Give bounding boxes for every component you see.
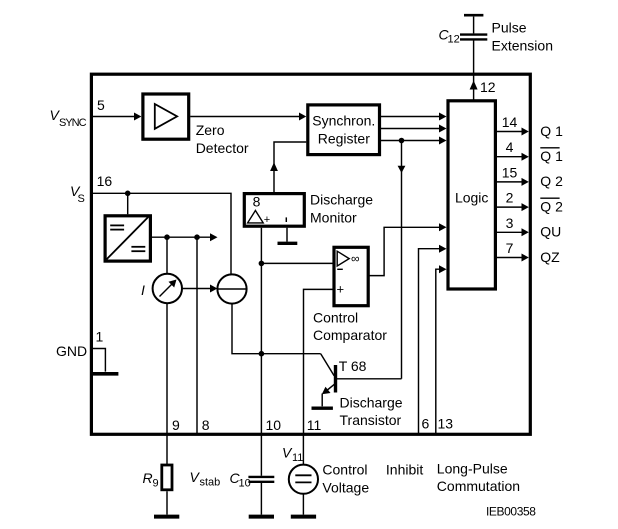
svg-text:Commutation: Commutation — [437, 478, 520, 494]
node rail to pin 8 — [194, 234, 200, 240]
node rail to pin 9 — [164, 234, 170, 240]
svg-text:11: 11 — [307, 417, 322, 433]
terminal bar above C12 — [464, 14, 483, 17]
svg-text:Q 2: Q 2 — [540, 173, 563, 189]
transistor T68 base bar — [334, 365, 337, 393]
wire logic output Q2bar pin 2 — [497, 206, 522, 208]
svg-text:Transistor: Transistor — [340, 412, 402, 428]
svg-text:7: 7 — [506, 240, 514, 256]
svg-text:QZ: QZ — [540, 249, 560, 265]
wire logic output Q2 pin 15 — [497, 181, 522, 183]
IC outline box — [91, 74, 530, 434]
current source circle — [217, 274, 246, 303]
comparator minus sign — [337, 268, 343, 270]
svg-text:Discharge: Discharge — [340, 394, 403, 410]
svg-text:Extension: Extension — [492, 37, 553, 53]
wire V11 to ground — [302, 494, 304, 515]
ground R9 — [154, 515, 179, 519]
svg-text:Logic: Logic — [455, 189, 488, 205]
svg-text:10: 10 — [266, 417, 282, 433]
svg-text:Long-Pulse: Long-Pulse — [437, 460, 508, 476]
wire zero detector to synchron register — [190, 116, 299, 118]
discharge monitor box — [244, 194, 304, 227]
svg-text:12: 12 — [480, 79, 496, 95]
svg-text:+: + — [264, 214, 270, 226]
svg-text:2: 2 — [506, 190, 514, 206]
node VS junction — [125, 191, 131, 197]
regulator equals top left — [110, 224, 124, 226]
V11 source circle — [289, 465, 318, 494]
wire logic output Q1 pin 14 — [497, 131, 522, 133]
svg-text:8: 8 — [202, 417, 210, 433]
svg-text:T 68: T 68 — [339, 358, 367, 374]
svg-text:IEB00358: IEB00358 — [486, 505, 536, 519]
svg-text:I: I — [141, 282, 145, 298]
svg-text:13: 13 — [438, 416, 454, 432]
svg-text:QU: QU — [540, 224, 561, 240]
wire pin 9 vertical lower — [166, 303, 168, 434]
regulator equals bottom right — [131, 246, 145, 248]
capacitor C10 — [248, 476, 274, 478]
wire regulator output rail — [152, 236, 211, 238]
wire pin 10 external — [260, 434, 262, 476]
wire junction down to discharge transistor collector — [401, 141, 403, 379]
regulator box — [105, 216, 150, 261]
svg-text:Control: Control — [322, 462, 367, 478]
svg-text:Inhibit: Inhibit — [386, 462, 423, 478]
regulator diagonal — [107, 217, 149, 260]
logic box — [448, 101, 495, 289]
wire logic output QZ pin 7 — [497, 257, 522, 259]
comparator triangle — [337, 251, 349, 266]
svg-text:∞: ∞ — [351, 252, 360, 266]
wire discharge monitor to register — [274, 142, 306, 192]
transistor emitter with arrow — [326, 384, 335, 391]
wire pin 9 vertical upper — [166, 237, 168, 274]
wire VS to regulator — [127, 193, 129, 214]
svg-text:9: 9 — [172, 417, 180, 433]
ground V11 — [291, 515, 316, 519]
svg-text:9: 9 — [153, 478, 159, 490]
wire emitter to ground — [321, 394, 323, 407]
zero detector U1 box — [143, 94, 189, 139]
svg-text:11: 11 — [292, 452, 303, 464]
wire pin 10 vertical — [260, 228, 262, 434]
ground GND — [93, 372, 119, 376]
node pin 10 comparator rail — [259, 261, 265, 267]
monitor tick — [285, 217, 287, 222]
wire R9 to ground — [166, 491, 168, 514]
svg-text:Comparator: Comparator — [313, 327, 387, 343]
wire pin 11 to comparator plus input — [304, 289, 333, 434]
wire pin 13 to logic — [436, 269, 440, 434]
wire VSYNC input pin 5 — [93, 116, 135, 118]
svg-text:5: 5 — [97, 97, 105, 113]
svg-text:SYNC: SYNC — [59, 117, 87, 129]
wire comparator output to logic — [368, 227, 439, 275]
wire pin 6 to logic — [419, 249, 440, 434]
wire transistor collector — [336, 378, 402, 380]
wire logic output Q1bar pin 4 — [497, 156, 522, 158]
svg-text:R: R — [143, 470, 153, 486]
wire logic output QU pin 3 — [497, 231, 522, 233]
capacitor C12 — [460, 33, 487, 35]
svg-text:16: 16 — [97, 173, 113, 189]
svg-text:Synchron.: Synchron. — [312, 113, 375, 129]
control comparator box — [334, 247, 368, 305]
synchron register box — [308, 105, 380, 155]
svg-text:15: 15 — [502, 164, 518, 180]
wire pin 9 external to R9 — [166, 434, 168, 464]
svg-text:10: 10 — [239, 478, 251, 490]
GND pin 1 wire — [93, 349, 106, 372]
wire register output 2 to logic — [380, 128, 440, 130]
wire register output 1 to logic — [380, 116, 440, 118]
wire register output 3 to logic — [380, 140, 440, 142]
ground monitor — [278, 242, 298, 245]
svg-text:Register: Register — [318, 130, 370, 146]
svg-text:Monitor: Monitor — [310, 209, 357, 225]
resistor R9 — [162, 465, 172, 490]
wire comparator minus input rail — [261, 262, 332, 264]
wire pin 12 pulse extension — [473, 40, 475, 100]
svg-text:Q 1: Q 1 — [540, 123, 563, 139]
svg-text:8: 8 — [253, 194, 261, 210]
wire transistor base from rail — [321, 354, 335, 376]
node base rail and pin 10 — [259, 351, 265, 357]
svg-text:stab: stab — [200, 477, 221, 489]
svg-text:Q 2: Q 2 — [540, 198, 563, 214]
svg-text:14: 14 — [502, 114, 518, 130]
zero detector triangle — [155, 104, 177, 129]
wire monitor ground lead — [286, 228, 288, 242]
svg-text:GND: GND — [56, 343, 87, 359]
wire pin 8 vertical — [196, 237, 198, 434]
wire current source down to base rail — [232, 304, 321, 354]
svg-text:S: S — [78, 193, 85, 205]
svg-text:3: 3 — [506, 215, 514, 231]
wire VS input pin 16 — [93, 193, 231, 274]
wire pin 11 external to V11 — [302, 434, 304, 465]
ground transistor emitter — [312, 407, 333, 410]
wire C10 to ground — [260, 483, 262, 515]
svg-text:Pulse: Pulse — [492, 20, 527, 36]
node junction on register output 3 — [399, 138, 405, 144]
svg-text:Q 1: Q 1 — [540, 148, 563, 164]
svg-text:1: 1 — [96, 329, 104, 345]
svg-text:Control: Control — [313, 309, 358, 325]
ground C10 — [249, 515, 274, 519]
svg-text:+: + — [337, 282, 345, 297]
monitor triangle — [248, 211, 264, 223]
svg-text:Zero: Zero — [196, 122, 225, 138]
current meter I circle — [153, 274, 182, 303]
svg-text:12: 12 — [448, 34, 460, 46]
svg-text:4: 4 — [506, 139, 514, 155]
svg-text:6: 6 — [422, 416, 430, 432]
svg-text:Detector: Detector — [196, 140, 249, 156]
svg-text:Discharge: Discharge — [310, 192, 373, 208]
svg-text:Voltage: Voltage — [322, 479, 369, 495]
wire current meter to current source — [182, 288, 211, 290]
